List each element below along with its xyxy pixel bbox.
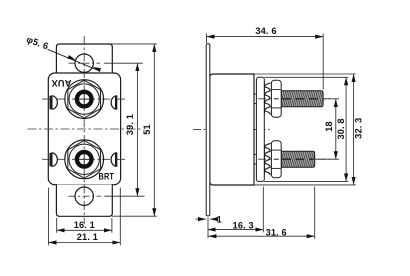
lower stud centerline: [258, 158, 330, 160]
bottom tab hole: [75, 187, 93, 205]
vertical centerline: [83, 36, 85, 224]
ext line below plate: [207, 218, 209, 239]
bottom mounting tab: [56, 185, 112, 217]
lower stud boss: [254, 154, 256, 156]
ear bottom-right: [111, 153, 116, 166]
svg-text:φ5. 6: φ5. 6: [25, 34, 50, 51]
upper star washer: [265, 83, 271, 115]
dim 18 line: [335, 99, 337, 159]
svg-text:30. 8: 30. 8: [336, 118, 346, 139]
ext line cap bottom: [264, 180, 348, 182]
BRT stud cross: [79, 158, 90, 160]
svg-text:21. 1: 21. 1: [77, 232, 98, 242]
svg-text:AUX: AUX: [51, 78, 72, 88]
dim 39.1 line: [136, 63, 138, 196]
bottom hole centerline: [69, 195, 102, 197]
dim 31.6 ext line: [314, 187, 316, 239]
upper stud (threaded): [281, 91, 323, 107]
lower star washer: [265, 143, 271, 175]
dim 16.3 line: [208, 229, 264, 231]
leader phi5.6: [48, 49, 101, 71]
AUX terminal centerline: [42, 98, 127, 100]
BRT stud ring: [75, 150, 94, 169]
svg-text:39. 1: 39. 1: [125, 114, 135, 135]
horizontal main centerline right: [193, 128, 270, 130]
AUX stud ring: [75, 90, 94, 109]
terminator upper stud: [323, 98, 339, 100]
svg-text:51: 51: [142, 124, 152, 135]
dim 16.1 ext lines: [56, 218, 58, 233]
dim 1: [196, 218, 207, 220]
lower stud (threaded): [281, 151, 315, 167]
dim 32.3 line: [353, 74, 355, 185]
mounting plate edge-on: [206, 44, 210, 216]
BRT terminal centerline: [42, 158, 127, 160]
AUX terminal outer circle: [65, 80, 104, 119]
dim 30.8 line: [345, 77, 347, 181]
top mounting tab: [56, 44, 112, 74]
dim 39.1 ext lines: [104, 62, 143, 64]
ext line cap top: [264, 76, 348, 78]
body: [210, 74, 254, 185]
dim 16.1 line: [57, 229, 112, 231]
dim 31.6 line: [208, 235, 314, 237]
dim 51 ext lines: [110, 43, 157, 45]
upper hex nut: [271, 80, 281, 117]
terminator lower stud: [315, 158, 339, 160]
top tab hole: [75, 54, 93, 72]
svg-text:BRT: BRT: [99, 172, 115, 182]
upper stud centerline: [258, 98, 330, 100]
top hole centerline: [69, 62, 101, 64]
dim 34.6 ext lines: [206, 34, 208, 44]
ear bottom-left: [52, 153, 58, 166]
dim 21.1 ext lines: [48, 188, 50, 246]
AUX inner circle: [69, 84, 99, 114]
svg-text:31. 6: 31. 6: [266, 228, 287, 238]
ext line body top: [254, 73, 356, 75]
AUX hex nut: [68, 80, 101, 118]
upper stud boss: [254, 93, 256, 95]
ear top-right: [111, 96, 116, 109]
svg-text:18: 18: [324, 121, 334, 132]
AUX stud cross: [79, 98, 90, 100]
BRT terminal outer circle: [65, 140, 104, 179]
svg-text:1: 1: [217, 214, 222, 224]
front cap: [256, 77, 264, 181]
svg-text:16. 1: 16. 1: [74, 220, 95, 230]
svg-text:34. 6: 34. 6: [255, 26, 276, 36]
dim 51 line: [153, 44, 155, 216]
horizontal main centerline: [28, 128, 144, 130]
svg-text:32. 3: 32. 3: [353, 118, 363, 139]
ear top-left: [52, 96, 58, 109]
lower hex nut: [271, 141, 281, 178]
BRT hex nut: [68, 140, 101, 178]
BRT inner circle: [69, 144, 99, 174]
ext line body bottom: [254, 184, 356, 186]
dim 21.1 line: [49, 242, 121, 244]
dim 16.3 ext line: [262, 187, 264, 233]
main plate: [48, 73, 120, 185]
svg-text:16. 3: 16. 3: [233, 221, 254, 231]
dim 34.6 line: [207, 36, 324, 38]
